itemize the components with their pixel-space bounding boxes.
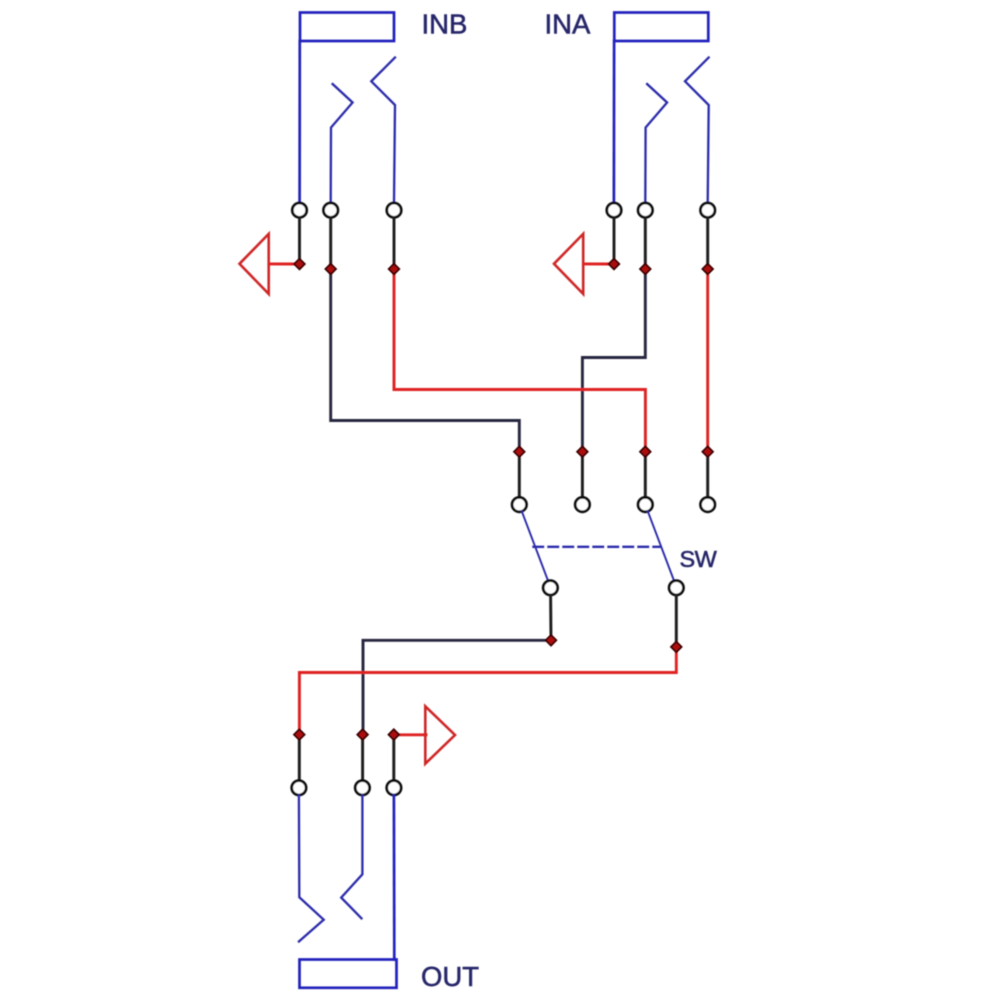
wire switch pole2 to node O1 (299, 649, 676, 735)
switch SW pole 2 common pad (669, 581, 683, 595)
jack J3 tip contact (299, 795, 324, 941)
junction node B3 (389, 264, 400, 275)
junction node A2 (640, 264, 651, 275)
jack J2 pin3 pad (701, 203, 715, 217)
junction node GB (294, 259, 305, 270)
label SW (680, 546, 718, 572)
label OUT (421, 961, 479, 992)
ground G2 (554, 234, 583, 294)
jack J1 sleeve lead (298, 41, 301, 203)
svg-text:SW: SW (680, 546, 718, 572)
wire node O3 to J3 pin3 (392, 737, 395, 781)
jack J2 pin2 pad (638, 203, 652, 217)
switch SW terminal T2 pad (575, 497, 589, 511)
wire J2 pin3 to node A3 (706, 218, 709, 269)
jack J2 ring contact (685, 58, 709, 203)
junction switch T3 (640, 446, 651, 457)
switch SW pole 1 common pad (543, 581, 557, 595)
jack J3 pin1 pad (292, 781, 306, 795)
jack J1 ring contact (371, 58, 395, 203)
wire switch terminal T4 stub (706, 455, 709, 497)
junction node GA (609, 259, 620, 270)
svg-text:INA: INA (545, 9, 592, 40)
wire J1 pin1 to node GB (298, 218, 301, 264)
wire J2 pin1 to node GA (613, 218, 616, 264)
wire node A3 to switch terminal T4 (706, 272, 709, 448)
wire J2 pin2 to node A2 (644, 218, 647, 269)
jack J1 body (INB) (300, 13, 394, 42)
ground G1 (240, 234, 269, 294)
wire J1 pin3 to node B3 (393, 218, 396, 269)
jack J1 pin2 pad (324, 203, 338, 217)
svg-text:INB: INB (422, 9, 468, 40)
jack J2 body (INA) (614, 13, 708, 42)
jack J3 ring contact (341, 795, 362, 918)
wire switch terminal T3 stub (644, 455, 647, 497)
wire switch terminal T2 stub (581, 455, 584, 497)
wire node B2 to switch terminal T1 (331, 272, 520, 448)
ground G3 (425, 706, 455, 763)
wire switch pole2 stub (675, 595, 678, 647)
wire node O2 to J3 pin2 (361, 737, 364, 781)
jack J3 pin2 pad (355, 781, 369, 795)
junction node O2 (357, 729, 368, 740)
jack J3 pin3 pad (387, 781, 401, 795)
switch SW terminal T3 pad (638, 497, 652, 511)
wire ground G2 to node GA (584, 262, 609, 265)
junction switch T2 (577, 446, 588, 457)
jack J2 pin1 pad (607, 203, 621, 217)
wire J1 pin2 to node B2 (329, 218, 332, 269)
label INA (545, 9, 592, 40)
wire switch terminal T1 stub (518, 455, 521, 497)
jack J1 pin3 pad (387, 203, 401, 217)
junction node O3 (389, 729, 400, 740)
jack J3 body (OUT) (300, 960, 397, 988)
wire node A2 to switch terminal T2 (582, 272, 645, 448)
wire switch pole1 stub (549, 595, 552, 640)
switch SW terminal T4 pad (701, 497, 715, 511)
jack J1 tip contact (331, 84, 353, 203)
junction switch T1 (514, 446, 525, 457)
switch SW pole 2 arm (648, 511, 674, 580)
jack J2 sleeve lead (613, 41, 616, 203)
wire node B3 to switch terminal T3 (394, 272, 645, 448)
junction switch T4 (702, 446, 713, 457)
wire switch pole1 to node O2 (363, 640, 548, 734)
switch SW pole 1 arm (522, 511, 548, 580)
wire node O3 to ground G3 (396, 733, 426, 736)
junction node A3 (702, 264, 713, 275)
switch SW linkage (dashed) (534, 546, 660, 548)
junction node O1 (294, 729, 305, 740)
wire ground G1 to node GB (270, 262, 295, 265)
jack J1 pin1 pad (292, 203, 306, 217)
junction node B2 (325, 264, 336, 275)
junction switch pole2 (671, 642, 682, 653)
svg-text:OUT: OUT (421, 961, 479, 992)
jack J2 tip contact (645, 84, 667, 203)
wire node O1 to J3 pin1 (298, 737, 301, 781)
junction switch pole1 (546, 635, 557, 646)
switch SW terminal T1 pad (512, 497, 526, 511)
label INB (422, 9, 468, 40)
jack J3 sleeve lead (393, 795, 396, 959)
